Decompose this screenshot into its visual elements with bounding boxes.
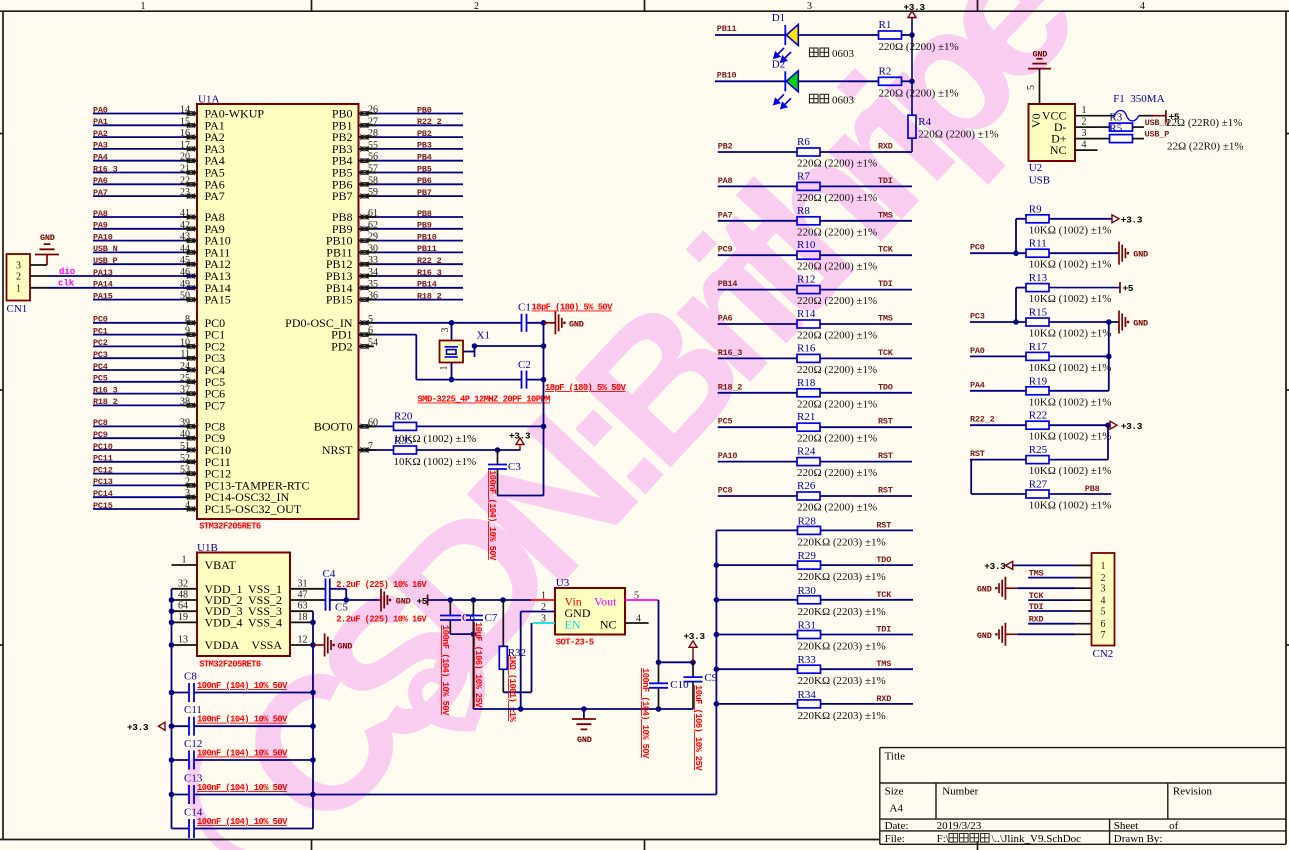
svg-text:1: 1 bbox=[141, 1, 146, 12]
svg-text:10KΩ (1002) ±1%: 10KΩ (1002) ±1% bbox=[1029, 396, 1112, 408]
svg-text:USB_P: USB_P bbox=[93, 256, 118, 266]
svg-text:R4: R4 bbox=[918, 116, 931, 128]
svg-text:VDDA: VDDA bbox=[205, 638, 240, 652]
svg-text:RST: RST bbox=[876, 520, 891, 530]
svg-text:220KΩ (2203) ±1%: 220KΩ (2203) ±1% bbox=[798, 641, 886, 653]
svg-text:100nF (104) 10% 50V: 100nF (104) 10% 50V bbox=[440, 625, 450, 716]
svg-text:R25: R25 bbox=[1029, 444, 1048, 456]
svg-text:100nF (104) 10% 50V: 100nF (104) 10% 50V bbox=[197, 681, 288, 691]
svg-text:PC3: PC3 bbox=[970, 312, 985, 322]
svg-text:+5: +5 bbox=[1123, 283, 1134, 294]
svg-text:PC8: PC8 bbox=[718, 486, 733, 496]
svg-text:Number: Number bbox=[942, 785, 978, 797]
svg-text:PC9: PC9 bbox=[718, 245, 733, 255]
svg-text:2: 2 bbox=[1101, 573, 1106, 584]
svg-text:R16: R16 bbox=[797, 342, 816, 354]
svg-text:PC15: PC15 bbox=[93, 501, 113, 511]
svg-text:R9: R9 bbox=[1029, 203, 1042, 215]
svg-text:R19: R19 bbox=[1029, 375, 1048, 387]
svg-text:C1: C1 bbox=[518, 302, 531, 314]
svg-text:10uF (106) 10% 25V: 10uF (106) 10% 25V bbox=[473, 622, 483, 708]
svg-text:GND: GND bbox=[396, 597, 411, 607]
svg-text:18pF (180) 5% 50V: 18pF (180) 5% 50V bbox=[545, 383, 627, 393]
svg-text:PC7: PC7 bbox=[205, 398, 226, 412]
svg-text:10KΩ (1002) ±1%: 10KΩ (1002) ±1% bbox=[1029, 259, 1112, 271]
svg-text:10KΩ (1002) ±1%: 10KΩ (1002) ±1% bbox=[1029, 293, 1112, 305]
svg-text:R22_2: R22_2 bbox=[970, 415, 995, 425]
svg-text:C4: C4 bbox=[323, 568, 336, 580]
svg-text:of: of bbox=[1169, 820, 1179, 832]
svg-text:2.2uF (225) 10% 16V: 2.2uF (225) 10% 16V bbox=[336, 580, 427, 590]
svg-text:+5: +5 bbox=[417, 596, 428, 607]
svg-text:R21: R21 bbox=[797, 411, 815, 423]
svg-text:Revision: Revision bbox=[1173, 785, 1213, 797]
svg-text:64: 64 bbox=[178, 601, 188, 612]
svg-text:R14: R14 bbox=[797, 308, 816, 320]
svg-text:0603: 0603 bbox=[832, 94, 855, 106]
svg-text:220Ω (2200) ±1%: 220Ω (2200) ±1% bbox=[797, 433, 877, 445]
svg-text:+3.3: +3.3 bbox=[904, 2, 926, 13]
svg-text:TMS: TMS bbox=[1029, 569, 1044, 579]
svg-text:GND: GND bbox=[338, 642, 353, 652]
svg-text:PB5: PB5 bbox=[417, 164, 432, 174]
svg-text:18: 18 bbox=[298, 612, 308, 623]
svg-text:R6: R6 bbox=[797, 136, 810, 148]
svg-text:1: 1 bbox=[16, 284, 21, 295]
svg-text:R18_2: R18_2 bbox=[417, 291, 442, 301]
svg-text:PC13: PC13 bbox=[93, 477, 113, 487]
svg-text:PA4: PA4 bbox=[93, 153, 108, 163]
svg-text:PB0: PB0 bbox=[417, 105, 432, 115]
svg-text:R12: R12 bbox=[797, 274, 815, 286]
svg-text:RST: RST bbox=[970, 449, 985, 459]
svg-text:2019/3/23: 2019/3/23 bbox=[937, 820, 982, 832]
svg-text:0603: 0603 bbox=[832, 48, 855, 60]
svg-text:1: 1 bbox=[1101, 561, 1106, 572]
svg-text:220KΩ (2203) ±1%: 220KΩ (2203) ±1% bbox=[798, 606, 886, 618]
svg-text:5: 5 bbox=[1026, 85, 1037, 90]
svg-text:PA10: PA10 bbox=[93, 232, 113, 242]
svg-text:TDO: TDO bbox=[878, 382, 893, 392]
svg-text:PB11: PB11 bbox=[717, 24, 737, 34]
svg-text:PA15: PA15 bbox=[205, 293, 231, 307]
svg-text:R22_2: R22_2 bbox=[417, 256, 442, 266]
svg-text:R10: R10 bbox=[797, 239, 816, 251]
svg-text:R28: R28 bbox=[798, 515, 817, 527]
svg-text:3: 3 bbox=[440, 328, 451, 333]
svg-text:GND: GND bbox=[1133, 319, 1148, 329]
svg-text:PC10: PC10 bbox=[93, 442, 113, 452]
svg-text:PA8: PA8 bbox=[93, 209, 108, 219]
svg-text:R15: R15 bbox=[1029, 307, 1048, 319]
svg-text:R16_3: R16_3 bbox=[718, 348, 743, 358]
svg-text:PA0: PA0 bbox=[93, 105, 108, 115]
svg-text:SMD-3225_4P 12MHZ 20PF 10PPM: SMD-3225_4P 12MHZ 20PF 10PPM bbox=[418, 395, 551, 405]
svg-text:2: 2 bbox=[1082, 117, 1087, 128]
svg-text:PC12: PC12 bbox=[93, 465, 113, 475]
svg-text:47: 47 bbox=[298, 590, 308, 601]
svg-text:220Ω (2200) ±1%: 220Ω (2200) ±1% bbox=[918, 129, 998, 141]
svg-text:+3.3: +3.3 bbox=[1121, 215, 1143, 226]
svg-text:PC0: PC0 bbox=[970, 243, 985, 253]
svg-text:PB7: PB7 bbox=[332, 189, 353, 203]
svg-text:1: 1 bbox=[1082, 105, 1087, 116]
svg-text:TCK: TCK bbox=[876, 590, 892, 600]
svg-text:C3: C3 bbox=[508, 461, 521, 473]
svg-text:STM32F205RET6: STM32F205RET6 bbox=[199, 522, 261, 532]
svg-text:GND: GND bbox=[1133, 250, 1148, 260]
svg-text:PA6: PA6 bbox=[93, 176, 108, 186]
svg-text:R34: R34 bbox=[798, 689, 817, 701]
svg-text:U2: U2 bbox=[1029, 162, 1042, 174]
svg-text:R16_3: R16_3 bbox=[93, 385, 118, 395]
svg-text:18pF (180) 5% 50V: 18pF (180) 5% 50V bbox=[532, 303, 614, 313]
svg-text:10KΩ (1002) ±1%: 10KΩ (1002) ±1% bbox=[1029, 500, 1112, 512]
svg-text:C5: C5 bbox=[335, 602, 348, 614]
svg-text:22Ω (22R0) ±1%: 22Ω (22R0) ±1% bbox=[1167, 141, 1244, 153]
svg-text:Sheet: Sheet bbox=[1114, 820, 1138, 832]
svg-text:PB10: PB10 bbox=[717, 70, 737, 80]
svg-text:PB14: PB14 bbox=[417, 280, 437, 290]
svg-text:PC3: PC3 bbox=[93, 350, 108, 360]
svg-text:48: 48 bbox=[178, 590, 188, 601]
svg-text:+3.3: +3.3 bbox=[127, 722, 149, 733]
svg-text:220KΩ (2203) ±1%: 220KΩ (2203) ±1% bbox=[798, 675, 886, 687]
svg-text:32: 32 bbox=[178, 578, 188, 589]
svg-text:PB10: PB10 bbox=[417, 232, 437, 242]
svg-text:R11: R11 bbox=[1029, 238, 1047, 250]
svg-text:PA2: PA2 bbox=[93, 129, 108, 139]
svg-text:6: 6 bbox=[1101, 619, 1106, 630]
svg-text:RST: RST bbox=[878, 486, 893, 496]
svg-text:TDI: TDI bbox=[878, 279, 893, 289]
svg-text:PB8: PB8 bbox=[1085, 484, 1100, 494]
svg-text:NC: NC bbox=[600, 618, 617, 632]
svg-text:D1: D1 bbox=[772, 12, 785, 24]
svg-text:GND: GND bbox=[977, 585, 992, 595]
svg-text:PB11: PB11 bbox=[417, 244, 437, 254]
svg-text:R1: R1 bbox=[879, 19, 892, 31]
svg-text:GND: GND bbox=[40, 233, 55, 243]
svg-text:R5: R5 bbox=[1109, 123, 1122, 135]
svg-text:2: 2 bbox=[16, 272, 21, 283]
svg-text:22Ω (22R0) ±1%: 22Ω (22R0) ±1% bbox=[1166, 117, 1243, 129]
svg-text:TDO: TDO bbox=[876, 555, 891, 565]
svg-text:TCK: TCK bbox=[878, 348, 894, 358]
svg-text:PB8: PB8 bbox=[417, 209, 432, 219]
svg-text:TMS: TMS bbox=[878, 210, 893, 220]
svg-text:SOT-23-5: SOT-23-5 bbox=[556, 638, 594, 648]
svg-text:PA8: PA8 bbox=[718, 176, 733, 186]
svg-text:10KΩ (1002) ±1%: 10KΩ (1002) ±1% bbox=[1029, 328, 1112, 340]
svg-text:PB14: PB14 bbox=[718, 279, 738, 289]
svg-text:X1: X1 bbox=[477, 330, 490, 342]
svg-text:R17: R17 bbox=[1029, 341, 1048, 353]
svg-text:PA15: PA15 bbox=[93, 291, 113, 301]
svg-text:PB3: PB3 bbox=[417, 141, 432, 151]
svg-text:3: 3 bbox=[807, 1, 812, 12]
svg-text:VSS_4: VSS_4 bbox=[248, 615, 282, 629]
svg-text:Size: Size bbox=[885, 785, 904, 797]
svg-text:USB_N: USB_N bbox=[93, 244, 118, 254]
svg-text:R27: R27 bbox=[1029, 479, 1048, 491]
svg-text:2.2uF (225) 10% 16V: 2.2uF (225) 10% 16V bbox=[336, 615, 427, 625]
svg-text:PB4: PB4 bbox=[417, 153, 432, 163]
svg-text:GND: GND bbox=[577, 735, 592, 745]
svg-text:PA3: PA3 bbox=[93, 141, 108, 151]
svg-text:CN2: CN2 bbox=[1093, 648, 1114, 660]
svg-text:PC2: PC2 bbox=[93, 338, 108, 348]
svg-text:PB9: PB9 bbox=[417, 221, 432, 231]
svg-text:3: 3 bbox=[1082, 128, 1087, 139]
svg-text:R22: R22 bbox=[1029, 410, 1047, 422]
svg-text:TCK: TCK bbox=[878, 245, 894, 255]
svg-text:220KΩ (2203) ±1%: 220KΩ (2203) ±1% bbox=[798, 571, 886, 583]
svg-text:R2: R2 bbox=[879, 65, 892, 77]
svg-text:R18_2: R18_2 bbox=[718, 382, 743, 392]
svg-text:A4: A4 bbox=[890, 803, 904, 815]
svg-text:PA4: PA4 bbox=[970, 380, 985, 390]
svg-text:D2: D2 bbox=[772, 58, 785, 70]
svg-text:+3.3: +3.3 bbox=[1121, 421, 1143, 432]
svg-text:dio: dio bbox=[59, 267, 75, 277]
svg-text:220Ω (2200) ±1%: 220Ω (2200) ±1% bbox=[879, 41, 959, 53]
svg-text:R13: R13 bbox=[1029, 272, 1048, 284]
svg-text:10KΩ (1002) ±1%: 10KΩ (1002) ±1% bbox=[1029, 224, 1112, 236]
svg-text:R26: R26 bbox=[797, 480, 816, 492]
svg-text:100nF (104) 10% 50V: 100nF (104) 10% 50V bbox=[197, 783, 288, 793]
svg-text:R18_2: R18_2 bbox=[93, 397, 118, 407]
svg-text:VBAT: VBAT bbox=[205, 558, 237, 572]
svg-text:PC9: PC9 bbox=[93, 430, 108, 440]
svg-text:R33: R33 bbox=[798, 654, 817, 666]
svg-text:C2: C2 bbox=[518, 359, 531, 371]
svg-text:PB15: PB15 bbox=[326, 293, 353, 307]
svg-text:PA6: PA6 bbox=[718, 314, 733, 324]
svg-text:12: 12 bbox=[298, 635, 308, 646]
svg-text:File:: File: bbox=[885, 833, 905, 845]
svg-text:GND: GND bbox=[569, 319, 584, 329]
svg-text:PA9: PA9 bbox=[93, 221, 108, 231]
svg-text:NRST: NRST bbox=[322, 443, 353, 457]
svg-text:10uF (106) 10% 25V: 10uF (106) 10% 25V bbox=[693, 685, 703, 771]
svg-text:PB2: PB2 bbox=[718, 142, 733, 152]
svg-text:C7: C7 bbox=[485, 612, 498, 624]
svg-text:F1 350MA: F1 350MA bbox=[1113, 93, 1164, 105]
svg-text:100nF (104) 10% 50V: 100nF (104) 10% 50V bbox=[197, 749, 288, 759]
svg-text:TMS: TMS bbox=[878, 314, 893, 324]
svg-text:2: 2 bbox=[474, 1, 479, 12]
svg-text:PC1: PC1 bbox=[93, 326, 108, 336]
svg-text:220Ω (2200) ±1%: 220Ω (2200) ±1% bbox=[797, 502, 877, 514]
svg-text:3: 3 bbox=[1101, 584, 1106, 595]
svg-text:PC15-OSC32_OUT: PC15-OSC32_OUT bbox=[205, 502, 302, 516]
svg-text:PC0: PC0 bbox=[93, 315, 108, 325]
svg-text:R18: R18 bbox=[797, 377, 816, 389]
svg-text:10KΩ (1002) ±1%: 10KΩ (1002) ±1% bbox=[1029, 362, 1112, 374]
svg-text:TMS: TMS bbox=[876, 659, 891, 669]
svg-text:10KΩ (1002) ±1%: 10KΩ (1002) ±1% bbox=[394, 456, 477, 468]
svg-text:Vout: Vout bbox=[594, 595, 617, 609]
svg-text:100nF (104) 10% 50V: 100nF (104) 10% 50V bbox=[640, 668, 650, 759]
svg-text:\..\Jlink_V9.SchDoc: \..\Jlink_V9.SchDoc bbox=[992, 833, 1082, 845]
svg-text:F:\: F:\ bbox=[937, 833, 950, 845]
svg-text:PD2: PD2 bbox=[331, 339, 352, 353]
svg-text:PA7: PA7 bbox=[93, 188, 108, 198]
svg-text:10KΩ (1002) ±1%: 10KΩ (1002) ±1% bbox=[1029, 431, 1112, 443]
svg-text:220Ω (2200) ±1%: 220Ω (2200) ±1% bbox=[797, 364, 877, 376]
svg-text:TDI: TDI bbox=[1029, 602, 1044, 612]
svg-text:4: 4 bbox=[1082, 140, 1087, 151]
svg-text:5: 5 bbox=[1101, 607, 1106, 618]
svg-text:PA7: PA7 bbox=[205, 189, 225, 203]
svg-text:31: 31 bbox=[298, 578, 308, 589]
svg-text:220Ω (2200) ±1%: 220Ω (2200) ±1% bbox=[797, 261, 877, 273]
svg-text:1: 1 bbox=[439, 366, 450, 371]
svg-text:PC8: PC8 bbox=[93, 418, 108, 428]
svg-text:GND: GND bbox=[977, 631, 992, 641]
svg-text:220Ω (2200) ±1%: 220Ω (2200) ±1% bbox=[879, 87, 959, 99]
svg-text:PC5: PC5 bbox=[93, 374, 108, 384]
svg-text:13: 13 bbox=[178, 635, 188, 646]
svg-text:220Ω (2200) ±1%: 220Ω (2200) ±1% bbox=[797, 330, 877, 342]
svg-text:clk: clk bbox=[58, 279, 75, 289]
svg-text:R29: R29 bbox=[798, 550, 817, 562]
svg-text:R8: R8 bbox=[797, 205, 810, 217]
svg-text:220KΩ (2203) ±1%: 220KΩ (2203) ±1% bbox=[798, 536, 886, 548]
svg-text:4: 4 bbox=[1140, 1, 1145, 12]
svg-text:RST: RST bbox=[878, 417, 893, 427]
svg-text:TCK: TCK bbox=[1029, 591, 1045, 601]
svg-text:PB2: PB2 bbox=[417, 129, 432, 139]
svg-text:BOOT0: BOOT0 bbox=[314, 419, 353, 433]
svg-text:+3.3: +3.3 bbox=[509, 431, 531, 442]
svg-text:1: 1 bbox=[182, 555, 187, 566]
svg-text:220Ω (2200) ±1%: 220Ω (2200) ±1% bbox=[797, 158, 877, 170]
svg-text:PB7: PB7 bbox=[417, 188, 432, 198]
svg-text:PA10: PA10 bbox=[718, 451, 738, 461]
svg-text:USB: USB bbox=[1029, 175, 1050, 187]
svg-text:RXD: RXD bbox=[1029, 615, 1044, 625]
svg-text:R22_2: R22_2 bbox=[417, 117, 442, 127]
svg-text:C8: C8 bbox=[184, 671, 197, 683]
svg-text:19: 19 bbox=[178, 612, 188, 623]
svg-text:RXD: RXD bbox=[876, 694, 891, 704]
svg-text:VDD_4: VDD_4 bbox=[205, 615, 243, 629]
svg-text:TDI: TDI bbox=[876, 625, 891, 635]
svg-text:100nF (104) 10% 50V: 100nF (104) 10% 50V bbox=[197, 817, 288, 827]
svg-text:NC: NC bbox=[1050, 143, 1067, 157]
svg-text:CN1: CN1 bbox=[7, 303, 28, 315]
svg-text:PA7: PA7 bbox=[718, 210, 733, 220]
svg-text:220Ω (2200) ±1%: 220Ω (2200) ±1% bbox=[797, 192, 877, 204]
svg-text:PA0: PA0 bbox=[970, 346, 985, 356]
svg-text:63: 63 bbox=[298, 601, 308, 612]
svg-text:220Ω (2200) ±1%: 220Ω (2200) ±1% bbox=[797, 226, 877, 238]
svg-text:R31: R31 bbox=[798, 620, 816, 632]
svg-text:220Ω (2200) ±1%: 220Ω (2200) ±1% bbox=[797, 398, 877, 410]
svg-text:PB6: PB6 bbox=[417, 176, 432, 186]
svg-text:1: 1 bbox=[541, 591, 546, 602]
svg-text:R16_3: R16_3 bbox=[417, 268, 442, 278]
svg-text:PC4: PC4 bbox=[93, 362, 108, 372]
svg-text:RST: RST bbox=[878, 451, 893, 461]
svg-text:10KΩ (1002) ±1%: 10KΩ (1002) ±1% bbox=[1029, 465, 1112, 477]
svg-text:220Ω (2200) ±1%: 220Ω (2200) ±1% bbox=[797, 467, 877, 479]
svg-text:PA1: PA1 bbox=[93, 117, 108, 127]
svg-text:STM32F205RET6: STM32F205RET6 bbox=[199, 660, 261, 670]
svg-text:220KΩ (2203) ±1%: 220KΩ (2203) ±1% bbox=[798, 710, 886, 722]
svg-text:R20: R20 bbox=[394, 411, 413, 423]
svg-text:4: 4 bbox=[1101, 596, 1106, 607]
svg-text:Drawn By:: Drawn By: bbox=[1114, 833, 1163, 845]
svg-text:TDI: TDI bbox=[878, 176, 893, 186]
svg-text:+3.3: +3.3 bbox=[984, 561, 1006, 572]
svg-text:PC5: PC5 bbox=[718, 417, 733, 427]
svg-text:RXD: RXD bbox=[878, 142, 893, 152]
svg-text:220Ω (2200) ±1%: 220Ω (2200) ±1% bbox=[797, 295, 877, 307]
svg-text:VSSA: VSSA bbox=[251, 638, 282, 652]
svg-text:R7: R7 bbox=[797, 170, 810, 182]
svg-text:3: 3 bbox=[16, 261, 21, 272]
svg-text:Date:: Date: bbox=[885, 820, 909, 832]
svg-text:100nF (104) 10% 50V: 100nF (104) 10% 50V bbox=[487, 470, 497, 561]
svg-text:R30: R30 bbox=[798, 585, 817, 597]
svg-text:100nF (104) 10% 50V: 100nF (104) 10% 50V bbox=[197, 715, 288, 725]
svg-text:R16_3: R16_3 bbox=[93, 164, 118, 174]
svg-text:7: 7 bbox=[1101, 630, 1106, 641]
svg-text:EN: EN bbox=[565, 618, 581, 632]
svg-text:USB_P: USB_P bbox=[1145, 130, 1170, 140]
svg-text:Title: Title bbox=[885, 751, 906, 763]
svg-text:+3.3: +3.3 bbox=[684, 631, 706, 642]
svg-text:R24: R24 bbox=[797, 446, 816, 458]
svg-text:PC11: PC11 bbox=[93, 454, 113, 464]
svg-text:PC14: PC14 bbox=[93, 489, 113, 499]
svg-text:1KΩ (1001) ±1%: 1KΩ (1001) ±1% bbox=[507, 655, 517, 722]
